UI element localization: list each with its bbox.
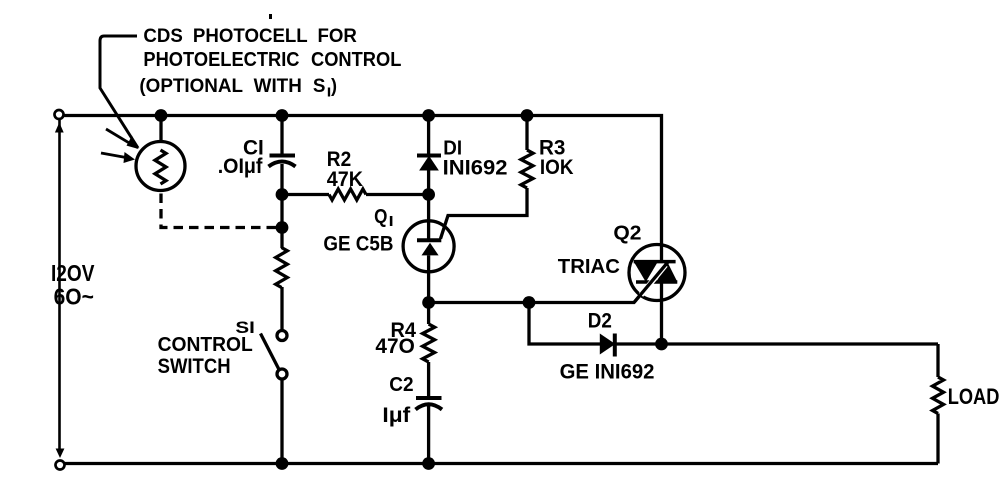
- diode D2 triangle: [601, 335, 614, 352]
- svg-text:CDS PHOTOCELL FOR: CDS PHOTOCELL FOR: [143, 26, 357, 47]
- arrow down on left rail: [56, 449, 65, 459]
- wire D1 bottom lead: [427, 170, 430, 195]
- capacitor C1 curved plate: [269, 162, 296, 167]
- diode D2 cathode bar: [613, 334, 617, 357]
- svg-text:SWITCH: SWITCH: [158, 355, 231, 378]
- svg-text:GE C5B: GE C5B: [323, 233, 393, 256]
- wire R1 to switch: [280, 287, 283, 331]
- photocell circle: [136, 142, 185, 191]
- resistor R1 element: [276, 248, 288, 288]
- SCR Q1 triangle: [422, 243, 439, 256]
- svg-text:LOAD: LOAD: [948, 384, 1000, 409]
- node C1 top: [276, 109, 289, 122]
- resistor R3 element: [521, 150, 533, 188]
- wire load bottom lead: [936, 414, 939, 464]
- svg-text:C2: C2: [389, 374, 413, 396]
- svg-text:I2OV: I2OV: [51, 260, 95, 286]
- arrow up on left rail: [55, 123, 64, 133]
- svg-text:IOK: IOK: [540, 156, 574, 179]
- node photocell top: [155, 109, 168, 122]
- node D1 top: [422, 109, 435, 122]
- wire R2 node down through dashed node to R1: [280, 195, 283, 249]
- capacitor C2 top plate: [416, 396, 442, 400]
- node R3 top: [521, 109, 534, 122]
- resistor R4 element: [423, 324, 435, 362]
- photocell light arrow 1: [106, 129, 130, 144]
- terminal bottom-left: [56, 461, 65, 470]
- diode D1 triangle: [421, 158, 437, 170]
- svg-text:): ): [331, 75, 337, 97]
- node D2 branch: [523, 296, 536, 309]
- wire left rail: [58, 119, 61, 450]
- wire top rail: [60, 116, 662, 262]
- triac Q2 bottom bar: [636, 280, 677, 284]
- node R2 left: [276, 188, 289, 201]
- wire Q1 anode lead: [427, 195, 430, 241]
- wire C1 branch: [280, 116, 283, 155]
- node switch bottom: [276, 457, 289, 470]
- svg-text:Iμf: Iμf: [382, 404, 411, 427]
- wire Q1 cathode lead: [427, 255, 430, 302]
- capacitor C2 curved plate: [416, 404, 443, 409]
- triac Q2 circle: [629, 245, 685, 301]
- svg-text:PHOTOELECTRIC CONTROL: PHOTOELECTRIC CONTROL: [143, 49, 401, 71]
- svg-text:47K: 47K: [327, 168, 363, 191]
- svg-text:D2: D2: [588, 310, 612, 333]
- photocell resistive element: [155, 150, 166, 184]
- triac Q2 right triangle: [656, 262, 677, 281]
- resistor LOAD element: [933, 377, 944, 414]
- wire switch to bottom rail: [280, 379, 283, 464]
- svg-text:INI692: INI692: [443, 157, 508, 180]
- triac Q2 gate diagonal redraw: [634, 262, 668, 302]
- wire D1 top lead: [427, 116, 430, 155]
- svg-text:.OIμf: .OIμf: [218, 155, 264, 178]
- capacitor C1 top plate: [270, 154, 296, 158]
- svg-text:GE INI692: GE INI692: [560, 361, 655, 384]
- wire dashed photocell to R1 node: [161, 194, 282, 228]
- SCR Q1 circle: [403, 221, 454, 272]
- triac Q2 top bar: [634, 260, 676, 264]
- resistor R2 element: [329, 189, 366, 200]
- triac Q2 left triangle: [634, 262, 658, 282]
- wire triac bottom lead: [660, 282, 663, 344]
- switch S1 bottom contact: [277, 369, 287, 379]
- wire bottom rail: [60, 462, 939, 465]
- svg-text:Q: Q: [374, 206, 387, 228]
- svg-text:TRIAC: TRIAC: [558, 256, 620, 278]
- triac Q2 gate gap (white): [641, 265, 666, 295]
- node dashed link: [276, 221, 289, 234]
- svg-text:47O: 47O: [375, 335, 414, 358]
- wire Q1 node to triac gate: [429, 262, 668, 302]
- wire R4 to C2: [427, 362, 430, 397]
- node triac MT1 / D2: [655, 338, 668, 351]
- stray mark above text: [269, 14, 272, 19]
- svg-text:Q2: Q2: [613, 223, 641, 245]
- node R2 right / D1 bottom: [422, 188, 435, 201]
- photocell leader line: [100, 36, 138, 148]
- switch S1 arm: [261, 334, 280, 370]
- svg-text:CONTROL: CONTROL: [158, 334, 253, 356]
- wire photocell branch top: [159, 116, 162, 142]
- wire C1 to R2 node: [280, 164, 283, 195]
- wire load top lead: [936, 344, 939, 377]
- wire R3 bottom to Q1 gate: [441, 188, 528, 239]
- svg-text:6O~: 6O~: [54, 284, 94, 310]
- node C2 bottom: [422, 457, 435, 470]
- wire R2 right lead: [366, 193, 429, 196]
- wire R2 left lead: [282, 193, 329, 196]
- svg-text:(OPTIONAL WITH S: (OPTIONAL WITH S: [139, 75, 325, 97]
- wire D2 to load corner: [615, 342, 939, 345]
- terminal top-left: [55, 110, 64, 119]
- wire D2 branch vertical: [529, 303, 601, 345]
- wire R4 top lead: [427, 303, 430, 325]
- svg-text:I: I: [389, 213, 394, 230]
- wire R3 branch: [525, 116, 528, 151]
- photocell light arrow 2: [101, 153, 126, 158]
- diode D1 cathode bar: [417, 154, 441, 158]
- wire C2 bottom lead: [427, 406, 430, 464]
- node Q1 cathode: [422, 296, 435, 309]
- switch S1 top contact: [277, 331, 287, 341]
- SCR Q1 cathode bar: [417, 238, 441, 242]
